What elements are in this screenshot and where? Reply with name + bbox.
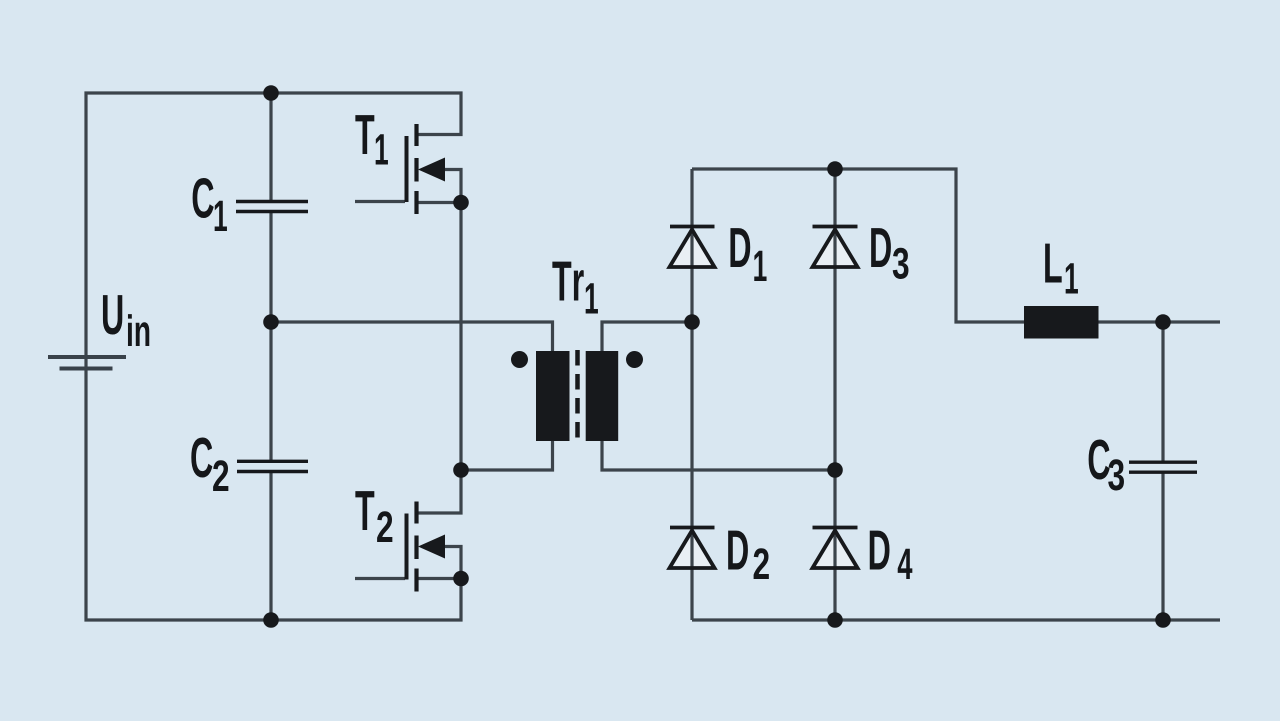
label T1 xyxy=(355,115,388,164)
wire C2 bottom lead xyxy=(269,473,272,620)
wire left loop: top rail left, left vertical, bottom-left rail, up to T2 source xyxy=(86,93,461,620)
label D4 xyxy=(870,531,913,579)
wire C1 top lead xyxy=(269,93,272,201)
wire bottom output rail xyxy=(692,618,1220,621)
wire T1 body-diode link down through source, midpoint net, to T2 drain lead xyxy=(418,170,461,514)
label Tr1 xyxy=(552,262,598,314)
wire L1 to output plus xyxy=(1099,320,1221,323)
wire top rail right to T1 drain lead xyxy=(271,93,461,135)
wire C1 bottom lead to mid junction xyxy=(269,212,272,322)
label D3 xyxy=(871,228,908,279)
junction D4 bottom xyxy=(827,612,843,628)
wire D1 D2 column xyxy=(690,169,693,620)
wire T1 source lead xyxy=(418,201,461,204)
label D1 xyxy=(730,228,766,281)
wire transformer secondary top lead to node A xyxy=(602,322,692,351)
wire C3 top lead xyxy=(1161,322,1164,461)
transformer Tr1 xyxy=(511,350,643,443)
label D2 xyxy=(728,531,769,579)
junction node B secondary bottom xyxy=(827,462,843,478)
diode D2 xyxy=(670,528,715,569)
diode D3 xyxy=(813,227,858,268)
capacitor C2 xyxy=(237,461,308,471)
junction T2 source xyxy=(453,571,469,587)
wire mid rail to transformer primary top xyxy=(271,322,553,351)
diode D1 xyxy=(670,227,715,268)
primary winding bar xyxy=(536,351,570,441)
label L1 xyxy=(1045,244,1078,294)
junction input minus xyxy=(263,612,279,628)
inductor L1 xyxy=(1024,306,1099,339)
wire C2 top lead xyxy=(269,322,272,460)
primary phase dot xyxy=(511,351,528,368)
label C2 xyxy=(191,438,228,491)
wire transformer secondary bottom lead to node B xyxy=(602,441,835,470)
label Uin xyxy=(103,295,149,346)
junction top rail D3 xyxy=(827,161,843,177)
wire C3 bottom lead xyxy=(1161,473,1164,620)
junction primary bottom xyxy=(453,462,469,478)
wire T2 source lead xyxy=(418,577,461,580)
diode D4 xyxy=(813,528,858,569)
capacitor C3 xyxy=(1129,462,1197,472)
secondary phase dot xyxy=(626,351,643,368)
wire top rectifier rail down to L1 xyxy=(692,169,1024,322)
wire T2 body-diode link to source dot xyxy=(445,547,461,579)
capacitor C1 xyxy=(236,202,308,212)
wire T1 gate lead xyxy=(355,200,405,203)
junction capacitor midpoint xyxy=(263,314,279,330)
secondary winding bar xyxy=(586,351,619,441)
label T2 xyxy=(355,491,392,542)
core dashed line xyxy=(575,350,580,443)
junction C3 bottom output xyxy=(1155,612,1171,628)
wire D3 D4 column xyxy=(833,169,836,620)
transistor T1 xyxy=(407,124,446,214)
label C1 xyxy=(193,178,227,231)
junction input plus xyxy=(263,85,279,101)
junction L1 C3 output xyxy=(1155,314,1171,330)
junction T1 source xyxy=(453,195,469,211)
wire transformer primary bottom lead to midpoint node xyxy=(461,441,553,470)
battery Uin xyxy=(48,357,126,369)
transistor T2 xyxy=(407,502,446,592)
label C3 xyxy=(1089,440,1124,491)
junction node A secondary top xyxy=(684,314,700,330)
wire T2 gate lead xyxy=(355,577,405,580)
